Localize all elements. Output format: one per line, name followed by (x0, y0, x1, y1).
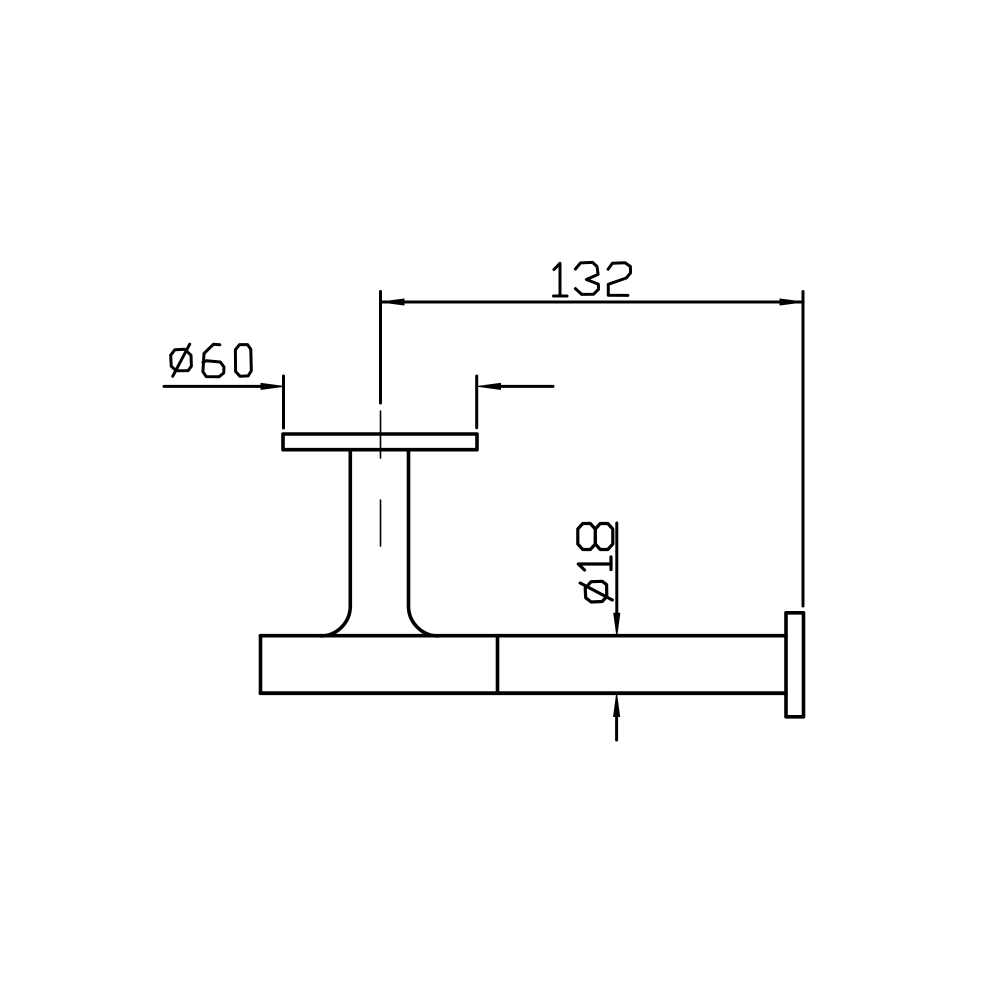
horizontal bar: left end edge (259, 636, 263, 694)
centerline of stem (dash-dot) (380, 411, 382, 546)
dimension text 132: digit 2 (608, 263, 631, 296)
dimension text 132: digit 1 (554, 263, 568, 296)
dimension o60: left arrowhead (points right at extension line) (261, 383, 284, 389)
diameter symbol of o18 (580, 581, 612, 602)
dimension text 132: digit 3 (575, 262, 598, 294)
digit 8 of o18 : lower lobe (595, 524, 613, 550)
dimension o60: extension line left (282, 376, 285, 428)
dimension 132: right arrowhead (780, 299, 803, 305)
dimension o60: right dimension line with arrow (499, 385, 553, 388)
bracket stem left side with fillet into bar (320, 450, 350, 636)
dimension 132: extension line right (from end cap) (802, 292, 805, 607)
dimension text o18 (rotated 90 CCW) (578, 524, 613, 603)
horizontal bar: top edge (261, 634, 787, 638)
horizontal bar: bottom edge (261, 691, 787, 695)
dimension text o60: diameter symbol (171, 344, 192, 376)
digit 1 of o18 (578, 557, 611, 570)
dimension o18: lower dimension line with arrow pointing up (615, 717, 618, 741)
dimension text o60: digit 6 (203, 344, 224, 377)
dimension 132: extension line left (from stem centerline) (379, 292, 382, 404)
dimension o18: upper arrowhead (614, 613, 620, 636)
dimension 132: dimension line (382, 301, 803, 304)
joint line between bracket base and tube (496, 636, 500, 694)
dimension o18: upper dimension line with arrow pointing down (615, 523, 618, 613)
dimension 132: left arrowhead (382, 299, 405, 305)
end cap at right end of bar (786, 613, 804, 717)
wall flange (top plate of bracket) (283, 434, 477, 450)
dimension o18: lower arrowhead (614, 694, 620, 717)
bracket stem right side with fillet into bar (409, 450, 439, 636)
digit 8 of o18 : upper lobe (578, 524, 596, 550)
dimension o60: right arrowhead (points left at extension line) (478, 383, 501, 389)
dimension o60: extension line right (475, 376, 478, 428)
dimension o60: left dimension line with arrow (164, 385, 262, 388)
dimension text o60: digit 0 (235, 345, 251, 377)
